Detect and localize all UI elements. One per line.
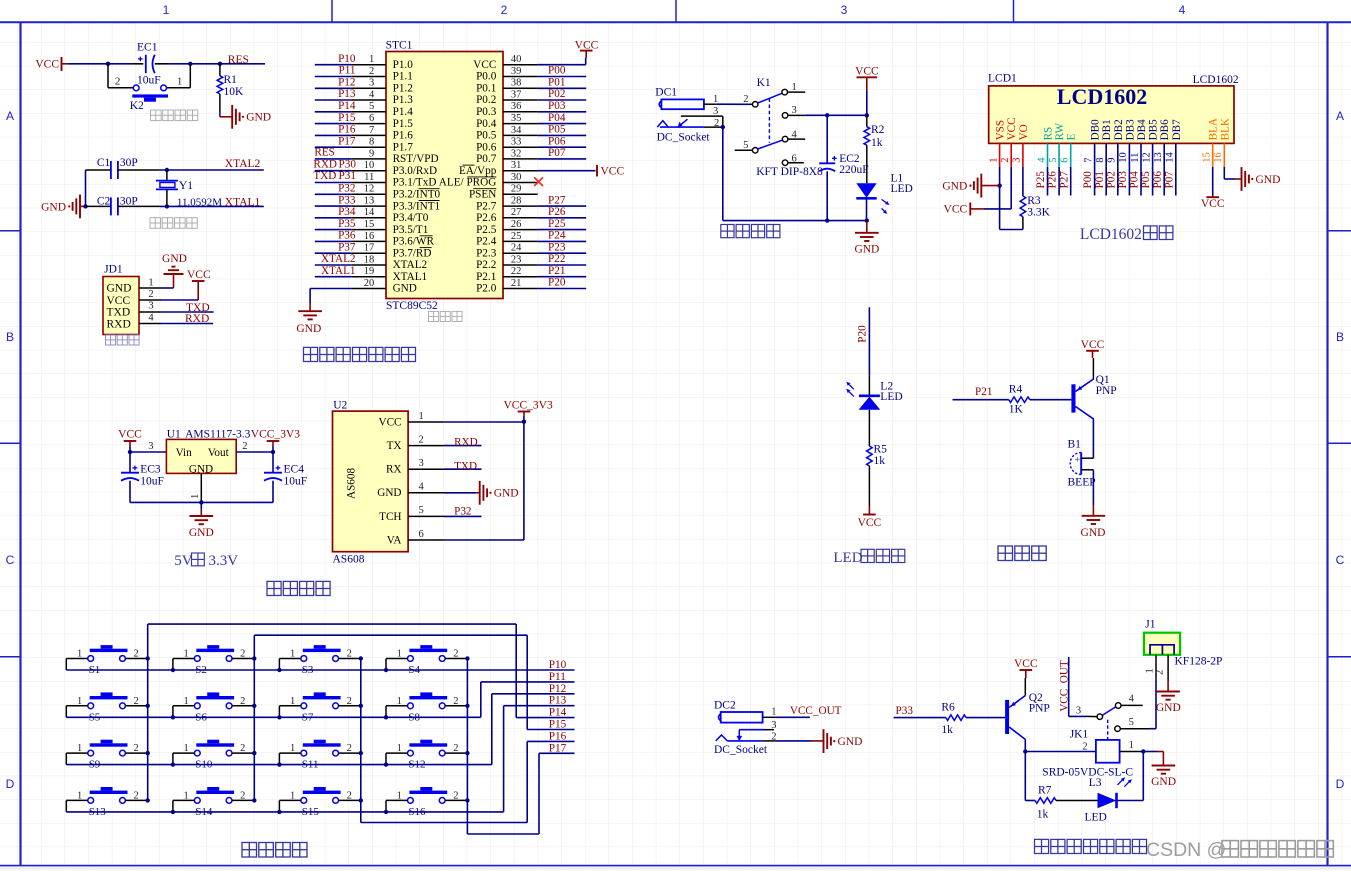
capacitor EC3: [129, 452, 131, 473]
S16 pin2 wire: [445, 799, 467, 801]
wire right drop to K2: [189, 64, 191, 88]
svg-text:30: 30: [511, 172, 522, 183]
no-ERC cross at pin30: [534, 177, 543, 186]
svg-text:P3.4/T0: P3.4/T0: [393, 212, 429, 224]
svg-text:R1: R1: [224, 74, 238, 86]
ground GND (crystal): [79, 195, 81, 219]
svg-text:P15: P15: [338, 112, 356, 124]
svg-text:GND: GND: [41, 201, 66, 213]
svg-text:P23: P23: [548, 241, 566, 253]
node junction S13 pin2: [146, 798, 150, 802]
resistor R3: [1020, 196, 1026, 217]
svg-text:P33: P33: [338, 194, 356, 206]
svg-text:P0.4: P0.4: [476, 118, 497, 130]
svg-text:6: 6: [369, 113, 374, 124]
svg-text:A: A: [6, 109, 14, 123]
svg-text:P21: P21: [975, 386, 992, 398]
wire DC2 pin2 to GND: [776, 740, 812, 742]
svg-text:10uF: 10uF: [137, 74, 161, 86]
transistor Q2 PNP: [1005, 700, 1009, 734]
S4 pin2 wire: [445, 658, 467, 660]
svg-text:R7: R7: [1038, 785, 1052, 797]
svg-text:39: 39: [511, 66, 522, 77]
svg-text:XTAL2: XTAL2: [321, 253, 356, 265]
svg-text:P24: P24: [548, 230, 566, 242]
LED L3: [1098, 793, 1117, 808]
svg-text:GND: GND: [838, 736, 863, 748]
svg-text:XTAL1: XTAL1: [321, 265, 356, 277]
DC2 socket tip marks: [716, 735, 728, 741]
node junction Y1 top: [165, 168, 169, 172]
node junction U1 output: [271, 450, 275, 454]
ground GND (U1): [200, 502, 202, 509]
node junction VCC_3V3: [522, 420, 526, 424]
svg-text:P02: P02: [548, 88, 565, 100]
svg-text:2: 2: [419, 434, 424, 445]
svg-text:28: 28: [511, 196, 522, 207]
DC1 socket tip marks: [657, 121, 668, 128]
svg-text:JK1: JK1: [1070, 728, 1089, 740]
svg-text:EC2: EC2: [839, 153, 860, 165]
svg-text:P31: P31: [339, 170, 356, 182]
node junction EC2 bottom: [825, 218, 829, 222]
svg-text:20: 20: [364, 278, 375, 289]
svg-text:R6: R6: [941, 701, 955, 713]
svg-text:XTAL1: XTAL1: [225, 197, 261, 209]
svg-text:13: 13: [364, 196, 375, 207]
svg-text:11: 11: [1130, 153, 1141, 163]
svg-text:RW: RW: [1054, 123, 1066, 141]
svg-text:P07: P07: [548, 147, 566, 159]
switch S7: [303, 696, 341, 699]
svg-text:P0.7: P0.7: [476, 153, 497, 165]
svg-text:P01: P01: [1094, 171, 1106, 188]
svg-text:16: 16: [364, 231, 375, 242]
svg-text:PNP: PNP: [1029, 703, 1050, 715]
pin name overlines (active-low): [419, 188, 440, 190]
svg-text:TXD: TXD: [313, 170, 336, 182]
S7 pin1 wire: [279, 705, 300, 707]
svg-text:4: 4: [148, 312, 154, 323]
node junction row2 cell4: [384, 715, 388, 719]
svg-text:P16: P16: [338, 124, 356, 136]
svg-text:3: 3: [713, 106, 718, 117]
node junction row3 cell4: [384, 762, 388, 766]
svg-text:VCC: VCC: [1081, 339, 1105, 351]
crystal Y1: [166, 170, 168, 181]
svg-text:EC3: EC3: [140, 464, 161, 476]
svg-text:LED: LED: [880, 391, 902, 403]
svg-text:P04: P04: [1129, 171, 1141, 189]
ground GND (AS608): [479, 481, 481, 505]
svg-text:DC1: DC1: [655, 87, 677, 99]
svg-text:2: 2: [1082, 741, 1087, 752]
svg-text:C2: C2: [97, 196, 111, 208]
svg-text:3: 3: [771, 720, 776, 731]
svg-text:P0.3: P0.3: [476, 106, 497, 118]
svg-text:29: 29: [511, 184, 522, 195]
svg-text:Vout: Vout: [208, 447, 230, 459]
svg-text:5V: 5V: [174, 553, 193, 569]
title 继电器控制电路: [1035, 839, 1049, 853]
S7 pin2 wire: [339, 705, 361, 707]
svg-text:P0.5: P0.5: [476, 130, 497, 142]
svg-text:11.0592M: 11.0592M: [177, 197, 222, 209]
wire Q2 collector down to R7 row: [1024, 752, 1026, 801]
svg-text:DC2: DC2: [714, 699, 736, 711]
DC1 pin1 wire to K1: [704, 103, 716, 105]
svg-text:BEEP: BEEP: [1068, 476, 1096, 488]
svg-text:LCD1: LCD1: [988, 73, 1017, 85]
svg-text:2: 2: [242, 441, 247, 452]
wire row3 bus P12: [66, 764, 492, 766]
svg-text:AS608: AS608: [333, 554, 365, 566]
svg-text:BLK: BLK: [1219, 118, 1231, 140]
wire column1 / P14 net: [147, 624, 149, 800]
svg-text:R3: R3: [1027, 195, 1041, 207]
svg-text:P02: P02: [1105, 171, 1117, 188]
svg-text:4: 4: [1036, 157, 1047, 163]
S10 pin1 wire: [173, 752, 194, 754]
svg-text:C: C: [6, 553, 15, 567]
svg-text:3: 3: [1012, 157, 1023, 162]
IC U1 AMS1117-3.3 body: [166, 439, 236, 473]
S13 pin2 wire: [126, 799, 148, 801]
svg-text:VA: VA: [387, 534, 402, 546]
ground GND (J1): [1167, 681, 1169, 691]
svg-text:GND: GND: [162, 253, 187, 265]
svg-text:8: 8: [1095, 157, 1106, 162]
S8 pin2 wire: [445, 705, 467, 707]
svg-text:17: 17: [364, 243, 375, 254]
svg-text:RXD: RXD: [454, 436, 478, 448]
svg-text:GND: GND: [494, 488, 519, 500]
wire U1 bottom rail: [130, 501, 273, 503]
wire P33 net: [894, 717, 946, 719]
svg-text:P1.5: P1.5: [393, 118, 414, 130]
svg-text:P1.7: P1.7: [393, 141, 414, 153]
JD1 pin 2 wire: [139, 299, 161, 301]
node junction S7 pin2: [359, 704, 363, 708]
K1 pole 3 contact: [782, 113, 788, 119]
svg-text:2: 2: [148, 289, 153, 300]
push button K2: [108, 87, 133, 89]
S4 pin1 wire: [386, 658, 407, 660]
svg-text:P37: P37: [338, 241, 356, 253]
node junction S10 pin2: [252, 751, 256, 755]
svg-text:AS608: AS608: [346, 468, 358, 499]
svg-text:16: 16: [1213, 152, 1224, 163]
svg-text:3: 3: [148, 441, 153, 452]
power port VCC (LED circuit) downward: [868, 506, 870, 515]
svg-text:VCC: VCC: [118, 429, 142, 441]
ground GND (power circuit): [866, 221, 868, 233]
svg-text:26: 26: [511, 219, 522, 230]
node junction row1 cell3: [277, 668, 281, 672]
svg-text:GND: GND: [296, 323, 321, 335]
svg-text:P17: P17: [549, 742, 567, 754]
svg-text:13: 13: [1153, 152, 1164, 163]
svg-text:P2.1: P2.1: [476, 271, 496, 283]
svg-text:P11: P11: [339, 65, 356, 77]
svg-text:10uF: 10uF: [140, 475, 164, 487]
svg-text:P2.0: P2.0: [476, 283, 497, 295]
capacitor C2: [86, 205, 111, 207]
svg-text:GND: GND: [107, 283, 132, 295]
comment text 按键复位: [151, 110, 162, 121]
node junction row1 cell4: [384, 668, 388, 672]
svg-text:P0.6: P0.6: [476, 141, 497, 153]
switch S15: [303, 791, 341, 794]
capacitor EC2: [826, 115, 828, 163]
svg-text:37: 37: [511, 89, 522, 100]
S12 pin1 wire: [386, 752, 407, 754]
svg-text:P20: P20: [856, 325, 868, 343]
svg-text:9: 9: [1107, 157, 1118, 162]
S16 pin1 wire: [386, 799, 407, 801]
wire collector to relay coil pin2: [1025, 751, 1096, 753]
svg-text:LED: LED: [1085, 811, 1107, 823]
svg-text:AMS1117-3.3: AMS1117-3.3: [185, 428, 251, 440]
ground GND (LCD left): [980, 174, 982, 198]
S3 pin1 wire: [279, 658, 300, 660]
svg-text:PNP: PNP: [1096, 385, 1117, 397]
svg-text:19: 19: [364, 266, 375, 277]
svg-text:31: 31: [511, 160, 522, 171]
svg-text:DB0: DB0: [1090, 119, 1102, 141]
svg-text:VCC: VCC: [1014, 658, 1038, 670]
svg-text:1k: 1k: [874, 455, 886, 467]
svg-text:35: 35: [511, 113, 522, 124]
svg-text:VCC: VCC: [473, 59, 496, 71]
node junction S16 pin2: [465, 798, 469, 802]
wire VA to VCC_3V3 vertical: [523, 422, 525, 540]
S1 pin1 wire: [66, 658, 87, 660]
svg-text:P2.2: P2.2: [476, 259, 496, 271]
wire relay pin1 down to LED row: [1142, 752, 1144, 801]
switch S11: [303, 743, 341, 746]
svg-text:TXD: TXD: [186, 302, 210, 314]
svg-text:P0.1: P0.1: [476, 83, 496, 95]
svg-text:XTAL2: XTAL2: [225, 158, 261, 170]
svg-text:P16: P16: [549, 730, 567, 742]
U2 pin3 wire TXD: [444, 468, 482, 470]
svg-text:TXD: TXD: [107, 307, 131, 319]
U2 pin6 wire VA: [444, 539, 524, 541]
wire row2 bus P11: [66, 716, 481, 718]
svg-text:LED: LED: [833, 550, 862, 566]
svg-text:P07: P07: [1163, 171, 1175, 189]
S14 pin2 wire: [232, 799, 254, 801]
node junction row3 cell2: [171, 762, 175, 766]
svg-text:8: 8: [369, 137, 374, 148]
wire XTAL2: [160, 169, 264, 171]
node junction row4 cell3: [277, 810, 281, 814]
svg-text:P06: P06: [1152, 171, 1164, 189]
resistor R6: [946, 715, 966, 721]
svg-text:15: 15: [364, 219, 375, 230]
svg-text:U1: U1: [167, 428, 181, 440]
svg-text:P06: P06: [548, 135, 566, 147]
svg-text:VCC: VCC: [858, 517, 882, 529]
DC1 pin3 contact: [681, 115, 723, 117]
K1 gang dashed link: [768, 98, 770, 143]
wire column2 / P15 net: [253, 635, 255, 800]
svg-text:18: 18: [364, 254, 375, 265]
svg-text:GND: GND: [1256, 174, 1281, 186]
svg-text:5: 5: [419, 505, 424, 516]
svg-text:P1.6: P1.6: [393, 130, 414, 142]
node junction S6 pin2: [252, 704, 256, 708]
node junction S11 pin2: [359, 751, 363, 755]
node junction R2 top: [865, 113, 869, 117]
title 单片机最小系统: [304, 347, 318, 361]
svg-text:P03: P03: [1117, 171, 1129, 189]
resistor R5: [868, 410, 870, 446]
svg-text:ALE/ PROG: ALE/ PROG: [439, 177, 497, 189]
svg-text:VCC: VCC: [1006, 117, 1018, 140]
svg-text:GND: GND: [1156, 702, 1181, 714]
svg-text:VCC_3V3: VCC_3V3: [504, 400, 553, 412]
svg-text:P1.1: P1.1: [393, 71, 413, 83]
IC U2 AS608 body: [333, 411, 409, 552]
wire R3 to gnd node: [1000, 229, 1023, 231]
svg-text:STC89C52: STC89C52: [386, 300, 438, 312]
S9 pin2 wire: [126, 752, 148, 754]
title 电源电路: [721, 225, 734, 238]
svg-text:EC1: EC1: [137, 41, 158, 53]
connector JD1 box: [103, 277, 139, 335]
svg-text:LED: LED: [891, 183, 913, 195]
svg-text:36: 36: [511, 101, 522, 112]
DC1 pin2 contact: [660, 126, 704, 128]
svg-text:P3.5/T1: P3.5/T1: [393, 224, 429, 236]
svg-text:2: 2: [369, 66, 374, 77]
svg-text:5: 5: [1129, 717, 1134, 728]
svg-text:12: 12: [364, 184, 375, 195]
svg-text:B1: B1: [1068, 438, 1082, 450]
svg-text:DB6: DB6: [1159, 119, 1171, 141]
comment text 单片机: [429, 311, 439, 321]
node junction row3 cell3: [277, 762, 281, 766]
svg-text:P1.2: P1.2: [393, 83, 413, 95]
JD1 pin 3 wire TXD: [139, 311, 161, 313]
svg-text:P2.6: P2.6: [476, 212, 497, 224]
svg-text:7: 7: [369, 125, 374, 136]
svg-text:P04: P04: [548, 112, 566, 124]
resistor R7: [1035, 798, 1056, 804]
svg-text:B: B: [6, 330, 14, 344]
switch S9: [90, 743, 128, 746]
svg-text:1K: 1K: [1009, 403, 1024, 415]
svg-text:P1.3: P1.3: [393, 94, 414, 106]
svg-text:KFT DIP-8X8: KFT DIP-8X8: [756, 166, 823, 178]
switch S4: [409, 649, 447, 652]
svg-text:TXD: TXD: [454, 461, 477, 473]
LED L1: [856, 183, 876, 198]
svg-text:P3.3/INT1: P3.3/INT1: [393, 200, 441, 212]
svg-text:4: 4: [369, 89, 375, 100]
svg-text:CSDN @: CSDN @: [1146, 839, 1226, 861]
svg-text:P15: P15: [549, 719, 567, 731]
svg-text:P12: P12: [338, 77, 355, 89]
wire row1 bus / P10 net: [66, 669, 574, 671]
node junction S9 pin2: [146, 751, 150, 755]
svg-text:220uF: 220uF: [839, 164, 868, 176]
svg-text:K1: K1: [757, 77, 771, 89]
svg-text:10K: 10K: [224, 86, 245, 98]
U2 pin5 wire P32: [444, 515, 482, 517]
svg-text:TX: TX: [387, 440, 402, 452]
svg-text:XTAL1: XTAL1: [393, 271, 428, 283]
svg-text:2: 2: [1155, 670, 1166, 675]
svg-text:P26: P26: [1047, 171, 1059, 189]
svg-text:P1.0: P1.0: [393, 59, 414, 71]
switch S12: [409, 743, 447, 746]
capacitor EC4: [272, 452, 274, 473]
svg-text:P17: P17: [338, 135, 356, 147]
svg-text:P27: P27: [548, 194, 566, 206]
DC2 pin3 contact: [739, 729, 764, 731]
JD1 pin 1 wire: [139, 287, 161, 289]
svg-text:30P: 30P: [120, 157, 138, 169]
node junction right of EC1: [188, 62, 192, 66]
S10 pin2 wire: [232, 752, 254, 754]
svg-text:3.3V: 3.3V: [209, 553, 239, 569]
title 矩阵键盘: [242, 843, 257, 858]
svg-text:GND: GND: [1151, 776, 1176, 788]
svg-text:3: 3: [792, 105, 797, 116]
svg-text:GND: GND: [189, 527, 214, 539]
svg-text:4: 4: [419, 482, 425, 493]
wire Q2 collector down: [1024, 740, 1026, 752]
comment text 下载口: [106, 335, 116, 345]
wire column3 / P16 net: [360, 659, 362, 801]
svg-text:GND: GND: [854, 244, 879, 256]
svg-text:34: 34: [511, 125, 522, 136]
resistor R4: [1009, 397, 1030, 403]
svg-text:5: 5: [369, 101, 374, 112]
svg-text:RES: RES: [228, 54, 249, 66]
svg-text:9: 9: [369, 148, 374, 159]
svg-text:DC_Socket: DC_Socket: [657, 131, 711, 143]
K1 pole 6 contact: [782, 160, 788, 166]
svg-text:1: 1: [771, 707, 776, 718]
wire buzzer to GND: [1092, 470, 1094, 505]
svg-text:6: 6: [1060, 157, 1071, 162]
svg-text:GND: GND: [377, 487, 401, 499]
svg-text:P21: P21: [548, 265, 565, 277]
wire crystal left vertical: [85, 170, 87, 206]
node junction S15 pin2: [359, 798, 363, 802]
svg-text:VCC_3V3: VCC_3V3: [251, 429, 300, 441]
svg-text:R4: R4: [1009, 384, 1023, 396]
node junction Q2 collector: [1023, 749, 1027, 753]
svg-text:1k: 1k: [871, 137, 883, 149]
svg-text:40: 40: [511, 54, 522, 65]
node junction row1 cell2: [171, 668, 175, 672]
svg-text:30P: 30P: [120, 196, 138, 208]
S13 pin1 wire: [66, 799, 87, 801]
node junction DC1 pin2: [721, 125, 725, 129]
wire R6 to Q2 base: [966, 717, 1005, 719]
svg-text:P13: P13: [338, 88, 356, 100]
svg-text:P0.0: P0.0: [476, 71, 497, 83]
J1 pin2 lead: [1167, 655, 1169, 682]
svg-text:GND: GND: [942, 181, 967, 193]
JD1 pin 4 wire RXD: [139, 323, 161, 325]
svg-text:32: 32: [511, 148, 522, 159]
